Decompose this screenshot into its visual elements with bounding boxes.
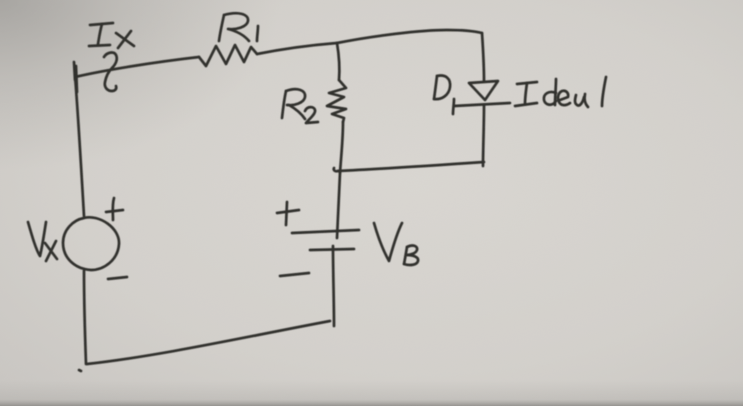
node A (junction of R1, R2, diode branch) <box>337 43 339 80</box>
node B hook (left end of diode return wire) <box>334 168 338 171</box>
label R1 <box>219 13 258 41</box>
wire (diode cathode down to node B horizontal) <box>338 162 484 171</box>
wire bottom (battery to bottom-left corner, slanted) <box>87 321 330 364</box>
wire (battery negative lead down) <box>333 246 334 326</box>
battery minus sign <box>280 273 309 276</box>
wire (R2 bottom lead to node B) <box>340 122 343 173</box>
resistor R2 (vertical zigzag) <box>327 80 346 122</box>
battery plus sign <box>277 202 299 225</box>
label R2 <box>282 89 318 123</box>
wire left vertical (Vx bottom to bottom-left corner) <box>84 271 86 364</box>
label Vx <box>28 222 57 261</box>
wire top (node A to top-right corner) <box>337 30 482 43</box>
label Ideal <box>515 77 606 107</box>
Vx plus sign <box>106 198 123 220</box>
resistor R1 (zigzag) <box>199 45 257 66</box>
battery VB negative plate (short) <box>310 249 354 250</box>
wire top (node at top-left corner to R1) <box>75 57 199 77</box>
label D1 <box>434 76 454 114</box>
wire right vertical (to diode D1 anode) <box>482 33 484 81</box>
diode D1 (ideal, triangle + cathode bar) <box>454 81 510 166</box>
battery VB positive plate (long) <box>292 230 359 233</box>
corner dot bottom-left <box>79 370 81 371</box>
Vx minus sign <box>108 277 127 279</box>
label VB <box>374 223 418 265</box>
wire top-left vertical (left branch from top wire down to Vx top) <box>74 62 84 216</box>
wire top (R1 to node A) <box>257 43 337 54</box>
label Ix <box>89 23 134 48</box>
voltage source Vx (circle) <box>63 217 119 270</box>
wire (node B down to battery VB plus plate) <box>337 173 340 238</box>
current arrow Ix (curl on wire) <box>104 53 117 91</box>
